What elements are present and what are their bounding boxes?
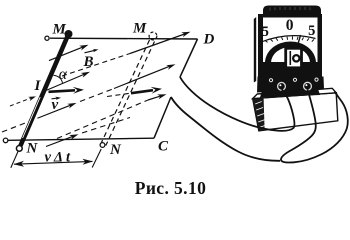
- arrowhead field line b: [181, 32, 190, 37]
- mirror window: [286, 48, 302, 68]
- N' open circle: [100, 143, 105, 148]
- svg-text:v: v: [52, 97, 59, 113]
- arrowhead field line h end: [166, 64, 175, 70]
- dimension arrow: [14, 161, 93, 164]
- needle: [293, 35, 301, 61]
- angle arc: [54, 75, 63, 83]
- svg-text:5: 5: [262, 24, 269, 40]
- terminal band: [257, 77, 324, 93]
- arch half annulus: [265, 42, 316, 64]
- top-left open circle: [45, 36, 49, 40]
- wire from notch upper to left terminal: [180, 77, 294, 131]
- svg-text:I: I: [34, 78, 42, 94]
- dimension arrowhead left: [14, 161, 25, 167]
- velocity thick arrow: [49, 90, 76, 92]
- svg-text:N: N: [109, 142, 122, 158]
- arrowhead field line c: [81, 72, 90, 78]
- wire from right terminal looping left: [281, 90, 348, 163]
- rod MN: [19, 34, 68, 148]
- svg-text:B: B: [83, 54, 94, 70]
- field line b dashed to D: [62, 54, 130, 77]
- arrowhead field line j: [69, 134, 78, 140]
- field line h dashed tail: [2, 118, 38, 132]
- svg-text:5: 5: [308, 23, 315, 39]
- svg-text:vΔt: vΔt: [45, 150, 74, 166]
- rod white streak: [23, 97, 41, 138]
- dimension arrowhead right: [82, 159, 93, 165]
- svg-text:M: M: [132, 21, 147, 37]
- field line j solid across rail: [46, 136, 74, 147]
- field line h mid dashed: [80, 89, 114, 102]
- base hatching: [255, 102, 266, 128]
- galvanometer base top face: [253, 88, 337, 98]
- terminal highlight left: [279, 84, 281, 86]
- svg-text:M: M: [52, 22, 67, 38]
- wire from notch lower under base to right rear: [171, 97, 280, 161]
- svg-text:D: D: [203, 32, 215, 48]
- dashed rod M'N' left line: [101, 40, 150, 144]
- field line g dashed from bottom: [57, 100, 148, 139]
- tick arc: [263, 36, 316, 42]
- small dashed arrow i near rod: [10, 98, 31, 106]
- meter body: [258, 14, 322, 78]
- svg-text:N: N: [26, 141, 39, 157]
- thick arrow f at second position: [107, 93, 130, 96]
- M' dashed loop: [149, 32, 157, 40]
- meter foot: [260, 89, 320, 98]
- B vector hat: [85, 50, 96, 53]
- big terminal left: [278, 82, 286, 90]
- rod top ball: [65, 30, 73, 38]
- right edge D segment: [180, 39, 198, 77]
- svg-text:C: C: [158, 139, 169, 155]
- terminal highlight right: [305, 84, 307, 86]
- field line h solid to notch arrowhead: [114, 66, 171, 89]
- window vertical line: [289, 51, 291, 65]
- field line j dashed continuation: [82, 118, 130, 134]
- svg-text:Рис. 5.10: Рис. 5.10: [135, 178, 207, 198]
- dimension extension line right: [92, 149, 101, 168]
- galvanometer base left side face: [253, 98, 265, 131]
- small dot terminals: [269, 79, 272, 82]
- dial lower black zone: [263, 62, 318, 78]
- top rail: [50, 37, 198, 40]
- ticks: [265, 37, 314, 43]
- field line a crossing rod top: [49, 46, 85, 60]
- big terminal right: [304, 82, 312, 90]
- galvanometer base front face: [253, 93, 338, 131]
- dial face: [263, 18, 318, 63]
- window circle: [293, 55, 299, 61]
- svg-text:0: 0: [286, 17, 294, 34]
- dashed rod M'N' right line: [106, 42, 155, 146]
- arrowhead field line g: [157, 94, 166, 99]
- arrowhead field line a: [79, 45, 88, 51]
- cap texture ticks: [270, 7, 310, 11]
- rod bottom ball: [16, 146, 22, 152]
- v vector hat: [52, 97, 59, 100]
- right edge C segment: [154, 97, 171, 138]
- meter left side sliver: [254, 17, 256, 83]
- meter top cap: [263, 6, 321, 18]
- dimension extension line left: [11, 152, 18, 168]
- alpha field line c: [47, 74, 87, 91]
- field line h solid with mid arrowhead: [38, 105, 72, 118]
- svg-text:α: α: [59, 66, 68, 83]
- bottom-left open circle: [3, 138, 8, 143]
- bottom rail: [8, 138, 154, 140]
